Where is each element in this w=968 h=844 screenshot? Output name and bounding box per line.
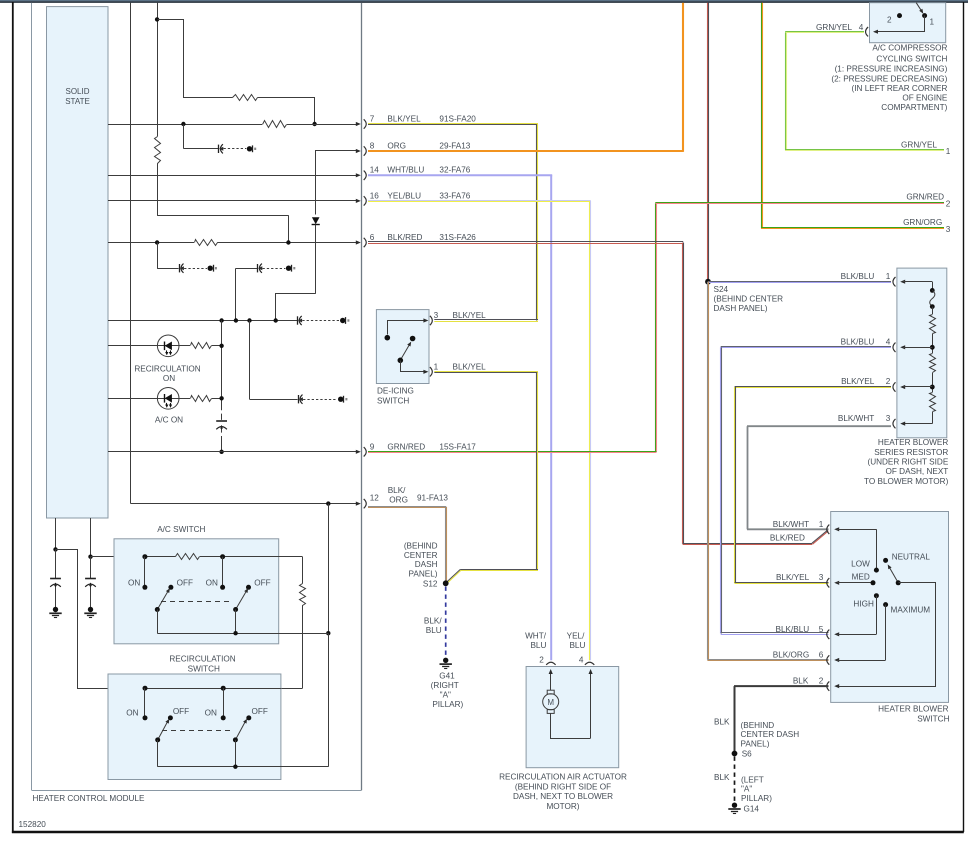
label BLK/YEL 3 xyxy=(776,573,824,582)
svg-text:BLK/RED: BLK/RED xyxy=(770,533,805,542)
svg-text:ORG: ORG xyxy=(389,495,408,504)
node SW2 on a xyxy=(143,715,148,720)
wire R9a-pin4 xyxy=(932,334,934,354)
wire stub left xyxy=(55,518,57,549)
node compressor pin 1 xyxy=(922,13,927,18)
label BLK s6 xyxy=(714,717,730,726)
label BLK/YEL pin1 xyxy=(453,362,487,371)
label BLK/BLU 5 xyxy=(776,625,824,634)
label BLK/BLU 1 xyxy=(841,272,891,281)
wire J4 down to C2 xyxy=(157,243,159,269)
label BLK/YEL 2 xyxy=(841,377,891,386)
switch arm SW2b xyxy=(235,719,247,740)
node J18 xyxy=(233,765,237,769)
wire ORG pin8 xyxy=(368,3,683,152)
A/C switch box xyxy=(114,539,279,644)
node J14 xyxy=(326,631,330,635)
label BLK/ ORG 91-FA13 xyxy=(388,486,449,504)
svg-text:NEUTRAL: NEUTRAL xyxy=(892,553,931,562)
svg-text:WHT/BLU: WHT/BLU xyxy=(387,165,424,174)
svg-text:29-FA13: 29-FA13 xyxy=(439,142,470,151)
svg-text:SWITCH: SWITCH xyxy=(188,665,220,674)
wire pin12 branch down xyxy=(328,504,330,634)
actuator pin 2 connector xyxy=(546,662,555,665)
wire R2 to pin7 line xyxy=(258,98,315,125)
svg-text:ON: ON xyxy=(128,578,140,587)
svg-text:3: 3 xyxy=(886,414,891,423)
svg-text:BLK: BLK xyxy=(793,677,809,686)
svg-text:32-FA76: 32-FA76 xyxy=(439,165,470,174)
label HEATER BLOWER SERIES RESISTOR xyxy=(864,438,949,486)
solid state block U1 xyxy=(47,7,109,518)
svg-text:PILLAR): PILLAR) xyxy=(741,794,772,803)
svg-text:A/C COMPRESSOR: A/C COMPRESSOR xyxy=(872,43,947,52)
node SW2 pivot a xyxy=(155,737,160,742)
svg-text:G14: G14 xyxy=(744,805,760,814)
de-icing switch box S2 xyxy=(376,310,429,384)
label BLK/RED 31S-FA26 xyxy=(387,233,476,242)
node J15 xyxy=(53,547,57,551)
node SW1 off a xyxy=(168,585,173,590)
svg-text:8: 8 xyxy=(370,142,375,151)
pin 12 connector xyxy=(346,499,366,508)
page bottom border xyxy=(12,831,964,833)
label G41 xyxy=(431,672,464,709)
label HEATER CONTROL MODULE xyxy=(33,794,145,803)
node compressor pin 2 xyxy=(897,13,902,18)
resistor pin 2 connector xyxy=(893,382,932,391)
node J9 xyxy=(274,318,278,322)
svg-text:MED: MED xyxy=(852,573,870,582)
svg-text:4: 4 xyxy=(579,656,584,665)
node de-icing pivot xyxy=(398,358,404,364)
label pin 7 xyxy=(370,115,375,124)
svg-text:ON: ON xyxy=(205,709,217,718)
heater blower series resistor box R9 xyxy=(897,268,947,438)
svg-text:MAXIMUM: MAXIMUM xyxy=(891,606,931,615)
svg-text:S6: S6 xyxy=(742,750,752,759)
wire BLK/WHT resistor pin3 xyxy=(747,426,891,529)
svg-text:SWITCH: SWITCH xyxy=(917,714,949,723)
wire A/C switch top xyxy=(145,556,303,558)
label S6 area xyxy=(741,721,800,759)
svg-text:(UNDER RIGHT SIDE: (UNDER RIGHT SIDE xyxy=(867,458,948,467)
wire SW2 contact b xyxy=(223,688,225,715)
svg-text:BLK: BLK xyxy=(714,717,730,726)
wire BLK/RED pin6 xyxy=(368,242,828,545)
wire to capacitor C1 xyxy=(183,125,185,149)
switch arm SW3 xyxy=(400,342,411,361)
svg-text:BLK/BLU: BLK/BLU xyxy=(841,272,875,281)
label GRN/RED 15S-FA17 xyxy=(387,442,476,451)
node SW2 contact b xyxy=(221,686,226,691)
svg-text:1: 1 xyxy=(930,17,935,26)
wire R9c-pin3 xyxy=(903,412,933,424)
capacitor C5 xyxy=(250,395,348,404)
node J12 xyxy=(219,450,223,454)
capacitor C6 xyxy=(216,421,227,430)
wire stub right xyxy=(90,518,92,557)
svg-text:OF ENGINE: OF ENGINE xyxy=(902,94,948,103)
svg-text:91-FA13: 91-FA13 xyxy=(417,494,448,503)
A/C compressor cycling switch box S1 xyxy=(870,3,946,43)
wire pin 7 internal xyxy=(108,124,346,126)
resistor R9b xyxy=(930,354,936,373)
label MAXIMUM xyxy=(891,606,931,615)
ground G14 xyxy=(728,803,740,814)
ground G-right xyxy=(84,607,96,618)
svg-text:3: 3 xyxy=(817,573,824,582)
svg-text:"A": "A" xyxy=(741,785,752,794)
ground G-left xyxy=(49,607,61,618)
wire GRN/YEL xyxy=(785,32,944,151)
svg-text:31S-FA26: 31S-FA26 xyxy=(439,233,476,242)
wire SW2 contact a xyxy=(144,688,146,715)
wire R5 to column xyxy=(212,345,222,347)
svg-text:WHT/: WHT/ xyxy=(525,631,547,640)
svg-text:GRN/ORG: GRN/ORG xyxy=(903,218,942,227)
splice S6 xyxy=(732,751,738,757)
svg-text:YEL/: YEL/ xyxy=(567,631,585,640)
svg-text:(BEHIND: (BEHIND xyxy=(404,541,438,550)
wire internal vertical bus x157 xyxy=(157,3,288,243)
svg-text:BLK/YEL: BLK/YEL xyxy=(841,377,875,386)
svg-text:(1: PRESSURE INCREASING): (1: PRESSURE INCREASING) xyxy=(835,65,948,74)
node RJ3 xyxy=(930,345,935,350)
svg-text:CENTER: CENTER xyxy=(404,551,438,560)
node J7 xyxy=(234,318,238,322)
svg-text:A/C SWITCH: A/C SWITCH xyxy=(157,525,205,534)
switch arm SW2a xyxy=(158,719,170,740)
svg-text:9: 9 xyxy=(370,442,375,451)
wire pin 12 internal xyxy=(131,3,347,504)
svg-text:(RIGHT: (RIGHT xyxy=(431,681,459,690)
svg-text:BLU: BLU xyxy=(426,626,442,635)
wire BLK blower pin2 xyxy=(734,686,829,751)
svg-text:6: 6 xyxy=(817,651,824,660)
svg-text:OF DASH, NEXT: OF DASH, NEXT xyxy=(886,467,949,476)
capacitor C1 xyxy=(183,144,256,153)
node J4 xyxy=(155,240,159,244)
capacitor C8 xyxy=(85,579,96,588)
node J5 xyxy=(286,240,290,244)
label ORG 29-FA13 xyxy=(387,142,470,151)
wire C7 to ground xyxy=(55,587,57,607)
wire BLK/YEL resistor pin2 xyxy=(735,387,892,584)
resistor R7 xyxy=(176,554,200,560)
label BLK 2 xyxy=(793,677,824,686)
node SW2 off a xyxy=(168,715,173,720)
label pin 3 de-icing xyxy=(434,311,439,320)
de-icing pin 1 connector xyxy=(430,367,432,376)
page left border xyxy=(12,2,14,833)
svg-text:GRN/RED: GRN/RED xyxy=(387,442,425,451)
label pin 3 right xyxy=(946,225,951,234)
label NEUTRAL xyxy=(892,553,931,562)
svg-text:S12: S12 xyxy=(423,579,438,588)
heater control module outline xyxy=(32,3,362,791)
svg-text:152820: 152820 xyxy=(19,820,47,829)
node J17 xyxy=(233,631,237,635)
node SW1 pivot a xyxy=(155,607,160,612)
svg-text:S24: S24 xyxy=(714,285,729,294)
ground G41 xyxy=(440,658,452,669)
svg-text:(2: PRESSURE DECREASING): (2: PRESSURE DECREASING) xyxy=(831,75,947,84)
svg-text:BLK/BLU: BLK/BLU xyxy=(841,338,875,347)
node SW1 contact b xyxy=(220,554,225,559)
resistor R3 xyxy=(263,121,287,128)
label S24 xyxy=(714,285,784,313)
svg-text:(BEHIND: (BEHIND xyxy=(741,721,775,730)
diode D1 xyxy=(312,217,320,293)
svg-text:ON: ON xyxy=(163,374,175,383)
svg-text:BLK/YEL: BLK/YEL xyxy=(387,115,421,124)
svg-text:15S-FA17: 15S-FA17 xyxy=(439,442,476,451)
label BLK/RED blower xyxy=(770,533,805,542)
wire de-icing pivot out xyxy=(401,361,429,374)
node J1 xyxy=(155,17,159,21)
svg-text:BLU: BLU xyxy=(569,641,585,650)
resistor pin 1 connector xyxy=(893,277,932,286)
label BLK/WHT 3 xyxy=(838,414,891,423)
node J8 xyxy=(247,318,251,322)
wire pin 16 internal xyxy=(108,200,346,202)
svg-text:SOLID: SOLID xyxy=(65,87,89,96)
wire pivot to pin2 xyxy=(834,583,935,689)
switch arm SW1b xyxy=(236,588,249,609)
pin 8 connector xyxy=(340,146,366,155)
label BLK g14 xyxy=(714,773,730,782)
compressor pin 4 connector xyxy=(866,27,869,36)
node J11 xyxy=(219,396,223,400)
node J10 xyxy=(219,344,223,348)
svg-text:2: 2 xyxy=(886,377,891,386)
node SW1 pivot b xyxy=(233,607,238,612)
wire LED column x221 xyxy=(221,321,223,420)
label LOW xyxy=(851,559,870,568)
pin 7 connector xyxy=(346,119,366,128)
label 1 compressor xyxy=(930,17,935,26)
dashed gang link SW1 xyxy=(161,601,232,603)
node J2 xyxy=(312,122,316,126)
label BLK/YEL pin3 xyxy=(453,311,487,320)
svg-text:HEATER CONTROL MODULE: HEATER CONTROL MODULE xyxy=(33,794,145,803)
blower pin 3 connector xyxy=(827,578,873,587)
svg-text:BLK/YEL: BLK/YEL xyxy=(453,311,487,320)
wire compressor internal xyxy=(873,16,925,34)
resistor pin 4 connector xyxy=(893,343,932,352)
svg-text:COMPARTMENT): COMPARTMENT) xyxy=(881,103,947,112)
resistor R9a xyxy=(930,315,936,334)
wire A/C LED row xyxy=(108,398,190,400)
label HIGH xyxy=(853,599,874,608)
svg-text:DASH PANEL): DASH PANEL) xyxy=(714,304,768,313)
pin 6 connector xyxy=(346,238,366,247)
resistor R5 xyxy=(191,343,212,349)
svg-text:1: 1 xyxy=(434,362,439,371)
wire BLK/YEL pin3 to junction xyxy=(434,320,538,322)
wire BLK/RED from top to S24 xyxy=(708,3,709,282)
wire actuator arrow left xyxy=(549,669,553,690)
svg-text:7: 7 xyxy=(370,115,375,124)
wire J15 to C7 xyxy=(55,549,57,578)
wire R9b-pin2 xyxy=(932,373,934,393)
capacitor C7 xyxy=(50,579,61,588)
label WHT/BLU 32-FA76 xyxy=(387,165,470,174)
splice S12 xyxy=(443,580,449,586)
label ON b xyxy=(206,578,218,587)
wire YEL/BLU pin16 xyxy=(368,201,591,661)
label HEATER BLOWER SWITCH xyxy=(878,704,949,723)
svg-text:RECIRCULATION AIR ACTUATOR: RECIRCULATION AIR ACTUATOR xyxy=(499,772,627,781)
svg-text:DASH, NEXT TO BLOWER: DASH, NEXT TO BLOWER xyxy=(513,792,613,801)
svg-text:BLK/: BLK/ xyxy=(424,616,442,625)
wire internal bus y320 xyxy=(108,320,297,322)
recirculation switch box xyxy=(108,674,281,780)
dashed gang link SW2 xyxy=(162,730,232,732)
node HIGH xyxy=(874,593,879,598)
label RECIRCULATION AIR ACTUATOR xyxy=(499,772,627,811)
svg-text:RECIRCULATION: RECIRCULATION xyxy=(134,364,200,373)
wire pin 9 internal xyxy=(108,451,346,453)
wire contact a xyxy=(144,557,146,585)
wire recirc switch bottom xyxy=(158,740,329,767)
svg-text:HEATER BLOWER: HEATER BLOWER xyxy=(878,704,948,713)
page top border bar xyxy=(0,0,968,3)
label WHT/BLU actuator xyxy=(525,631,547,650)
label RECIRCULATION SWITCH xyxy=(169,655,235,674)
label YEL/BLU 33-FA76 xyxy=(387,191,470,200)
node MAXIMUM xyxy=(883,602,888,607)
node MED xyxy=(871,580,876,585)
splice S24 xyxy=(705,279,711,285)
wire pin 6 internal xyxy=(108,242,346,244)
wire pin12 branch to recirc xyxy=(328,633,330,767)
svg-text:GRN/YEL: GRN/YEL xyxy=(816,23,852,32)
wire BLK/BLU S24 to resistor pin1 xyxy=(708,282,891,283)
svg-text:6: 6 xyxy=(370,233,375,242)
motor M1 xyxy=(543,690,559,713)
node J16 xyxy=(88,555,92,559)
wire GRN/RED to pin2 xyxy=(655,203,944,204)
wire R6 to column xyxy=(212,398,222,400)
svg-text:33-FA76: 33-FA76 xyxy=(439,191,470,200)
label pin 6 xyxy=(370,233,375,242)
label pin 1 de-icing xyxy=(434,362,439,371)
svg-text:A/C ON: A/C ON xyxy=(155,416,183,425)
svg-text:ORG: ORG xyxy=(387,142,406,151)
resistor pin 3 connector xyxy=(893,419,905,428)
svg-text:BLK/YEL: BLK/YEL xyxy=(776,573,810,582)
label G14 area xyxy=(741,775,772,813)
label pin 2 right xyxy=(946,199,951,208)
node RJ2 xyxy=(930,304,935,309)
label BLK/YEL 91S-FA20 xyxy=(387,115,476,124)
label A/C ON xyxy=(155,416,183,425)
label ON a xyxy=(128,578,140,587)
svg-text:PILLAR): PILLAR) xyxy=(432,700,463,709)
wire R8 leads xyxy=(281,557,303,689)
wire resistor top xyxy=(932,282,934,291)
wire BLK/YEL pin7 xyxy=(368,124,538,321)
label A/C COMPRESSOR CYCLING SWITCH xyxy=(831,43,948,112)
svg-text:PANEL): PANEL) xyxy=(409,570,438,579)
node SW1 on a xyxy=(142,585,147,590)
svg-text:"A": "A" xyxy=(440,691,451,700)
resistor R4 xyxy=(195,240,218,246)
svg-text:BLU: BLU xyxy=(530,641,546,650)
capacitor C2 xyxy=(157,264,217,273)
resistor R9c xyxy=(930,393,936,412)
wire GRN/RED pin9 xyxy=(368,203,657,453)
node SW1 contact a xyxy=(142,554,147,559)
page right border xyxy=(963,2,965,832)
capacitor C4 on bus xyxy=(295,316,349,325)
svg-text:1: 1 xyxy=(946,147,951,156)
svg-text:M: M xyxy=(547,698,554,707)
wire to R9a xyxy=(932,307,934,314)
svg-text:1: 1 xyxy=(817,520,824,529)
recirculation air actuator box M1 xyxy=(526,667,619,768)
node RJ4 xyxy=(930,385,935,390)
node SW2 off b xyxy=(246,715,251,720)
wire GRN/ORG vertical xyxy=(761,3,944,229)
svg-text:OFF: OFF xyxy=(252,707,268,716)
switch arm SW5 xyxy=(888,564,899,582)
label YEL/BLU actuator xyxy=(567,631,586,650)
LED recirculation ON xyxy=(157,335,179,357)
node SW2 pivot b xyxy=(233,737,238,742)
resistor R6 xyxy=(191,396,212,402)
wire BLK/ORG S24 to blower pin6 xyxy=(707,282,828,661)
svg-text:RECIRCULATION: RECIRCULATION xyxy=(169,655,235,664)
svg-text:4: 4 xyxy=(886,338,891,347)
label OFF b2 xyxy=(252,707,268,716)
label pin 16 xyxy=(370,191,380,200)
wire J16 to C8 xyxy=(90,557,92,579)
node LOW xyxy=(874,568,879,573)
svg-text:YEL/BLU: YEL/BLU xyxy=(387,191,421,200)
node SW2 contact a xyxy=(143,686,148,691)
svg-text:BLK/: BLK/ xyxy=(388,486,406,495)
node de-icing contact xyxy=(385,335,391,341)
svg-text:2: 2 xyxy=(539,656,544,665)
svg-text:DASH: DASH xyxy=(415,560,438,569)
svg-text:GRN/YEL: GRN/YEL xyxy=(901,140,937,149)
wire bus down to C5 xyxy=(249,321,251,400)
label BLK/BLU 4 xyxy=(841,338,891,347)
svg-text:12: 12 xyxy=(370,494,380,503)
wire step to R2 xyxy=(158,20,233,98)
label OFF b xyxy=(254,578,270,587)
svg-text:GRN/RED: GRN/RED xyxy=(906,193,944,202)
wire J16 to A/C switch xyxy=(91,556,145,558)
svg-text:BLK/WHT: BLK/WHT xyxy=(838,414,874,423)
svg-text:2: 2 xyxy=(817,677,824,686)
blower pin 1 connector xyxy=(827,525,877,534)
label pin 14 xyxy=(370,165,380,174)
svg-text:ON: ON xyxy=(206,578,218,587)
label A/C SWITCH xyxy=(157,525,205,534)
wire C6 to pin9 line xyxy=(221,430,223,452)
label RECIRCULATION ON xyxy=(134,364,200,383)
label S12 area xyxy=(404,541,438,588)
wire contact b xyxy=(222,557,224,585)
svg-text:OFF: OFF xyxy=(173,707,189,716)
svg-text:TO BLOWER MOTOR): TO BLOWER MOTOR) xyxy=(864,477,949,486)
blower pin 2 connector xyxy=(827,681,830,690)
svg-text:OFF: OFF xyxy=(254,578,270,587)
